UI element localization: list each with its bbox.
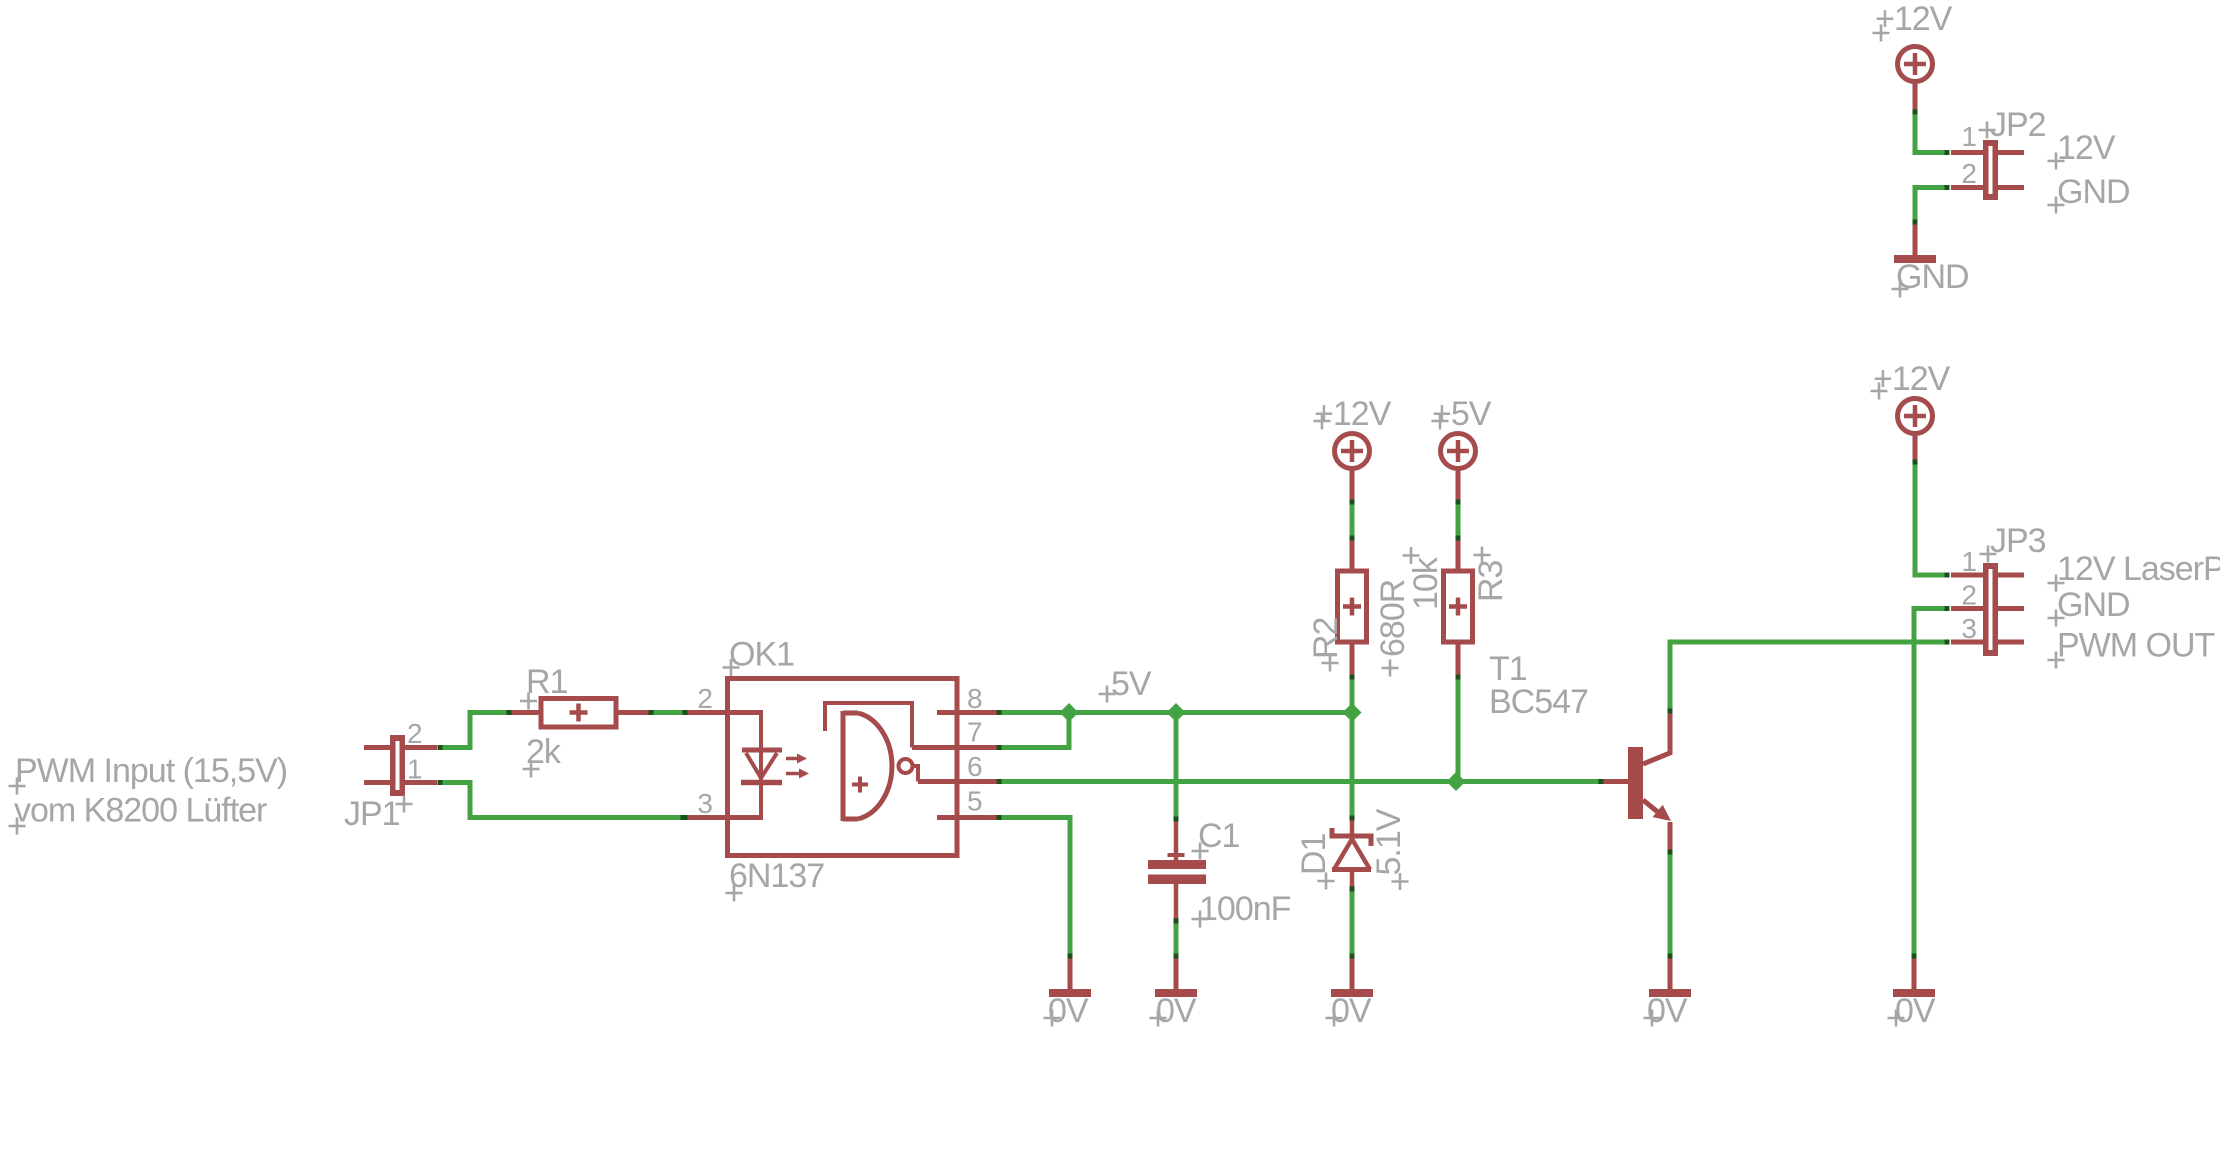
svg-text:0V: 0V xyxy=(1156,992,1197,1030)
svg-text:JP1: JP1 xyxy=(344,795,400,833)
svg-text:5.1V: 5.1V xyxy=(1370,808,1408,875)
svg-text:8: 8 xyxy=(967,683,982,714)
svg-text:JP2: JP2 xyxy=(1990,106,2046,144)
svg-text:7: 7 xyxy=(967,717,982,748)
svg-text:R2: R2 xyxy=(1307,617,1345,659)
svg-text:R1: R1 xyxy=(526,663,568,701)
svg-text:1: 1 xyxy=(407,754,422,785)
svg-text:JP3: JP3 xyxy=(1990,522,2046,560)
svg-text:GND: GND xyxy=(2057,586,2130,624)
svg-text:2: 2 xyxy=(407,718,422,749)
svg-text:+12V: +12V xyxy=(1314,395,1392,433)
svg-text:R3: R3 xyxy=(1472,560,1510,602)
svg-text:6N137: 6N137 xyxy=(729,857,824,895)
svg-text:3: 3 xyxy=(697,788,712,819)
svg-text:1: 1 xyxy=(1961,121,1976,152)
svg-text:6: 6 xyxy=(967,751,982,782)
svg-text:BC547: BC547 xyxy=(1489,683,1588,721)
svg-text:2: 2 xyxy=(1961,158,1976,189)
svg-text:12V: 12V xyxy=(2057,129,2116,167)
svg-text:5: 5 xyxy=(967,786,982,817)
svg-text:10k: 10k xyxy=(1407,556,1445,610)
svg-text:0V: 0V xyxy=(1895,992,1936,1030)
svg-text:PWM OUT: PWM OUT xyxy=(2057,627,2215,665)
svg-text:1: 1 xyxy=(1961,546,1976,577)
svg-text:2: 2 xyxy=(697,683,712,714)
svg-text:3: 3 xyxy=(1961,613,1976,644)
svg-text:PWM Input (15,5V): PWM Input (15,5V) xyxy=(15,752,287,790)
svg-text:C1: C1 xyxy=(1198,817,1240,855)
svg-text:100nF: 100nF xyxy=(1199,890,1291,928)
svg-text:5V: 5V xyxy=(1111,665,1152,703)
svg-text:GND: GND xyxy=(2057,173,2130,211)
svg-text:0V: 0V xyxy=(1331,992,1372,1030)
svg-text:12V LaserPWR: 12V LaserPWR xyxy=(2057,550,2220,588)
svg-text:0V: 0V xyxy=(1048,992,1089,1030)
svg-text:2: 2 xyxy=(1961,580,1976,611)
svg-text:vom K8200 Lüfter: vom K8200 Lüfter xyxy=(14,792,267,830)
svg-text:D1: D1 xyxy=(1295,833,1333,875)
